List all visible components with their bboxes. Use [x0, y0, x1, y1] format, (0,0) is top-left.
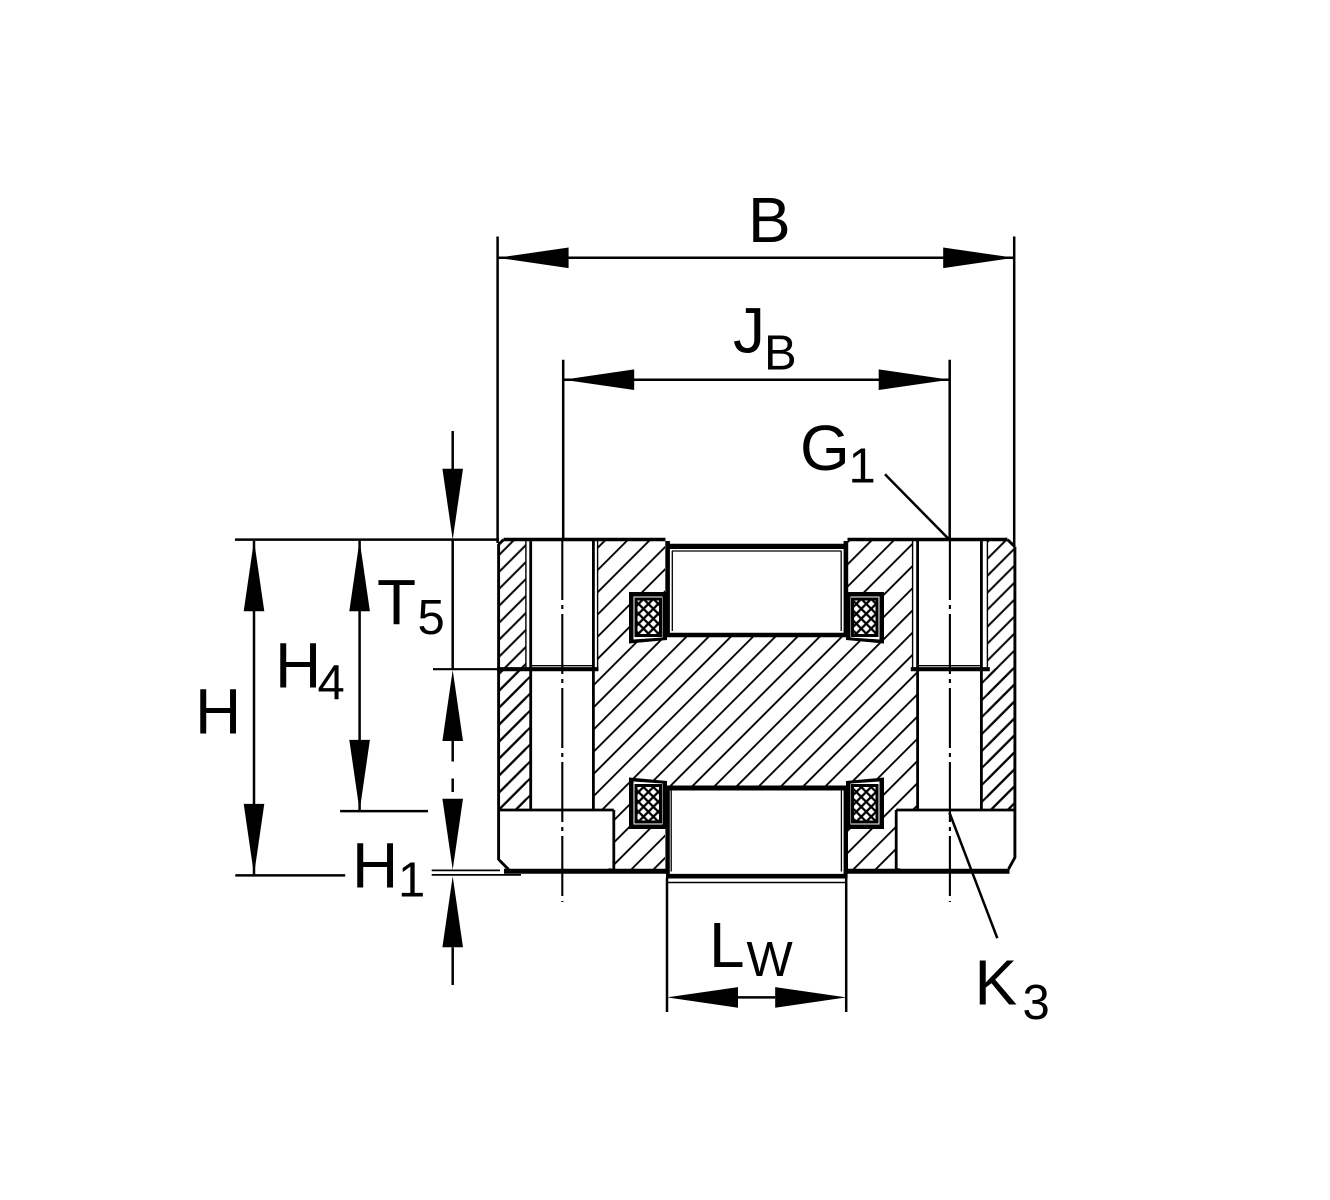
svg-text:T: T — [377, 566, 416, 638]
svg-text:G: G — [800, 412, 850, 484]
svg-text:1: 1 — [398, 853, 425, 907]
svg-text:B: B — [748, 184, 791, 256]
svg-text:K: K — [975, 947, 1018, 1019]
svg-text:H: H — [195, 676, 241, 748]
svg-text:H: H — [352, 829, 398, 901]
svg-text:1: 1 — [849, 440, 876, 494]
svg-text:5: 5 — [418, 591, 445, 645]
svg-text:L: L — [709, 909, 745, 981]
svg-text:W: W — [747, 933, 794, 987]
svg-text:B: B — [764, 327, 797, 381]
svg-text:3: 3 — [1023, 976, 1050, 1030]
svg-text:4: 4 — [318, 656, 345, 710]
svg-text:H: H — [275, 629, 321, 701]
svg-text:J: J — [733, 295, 765, 367]
